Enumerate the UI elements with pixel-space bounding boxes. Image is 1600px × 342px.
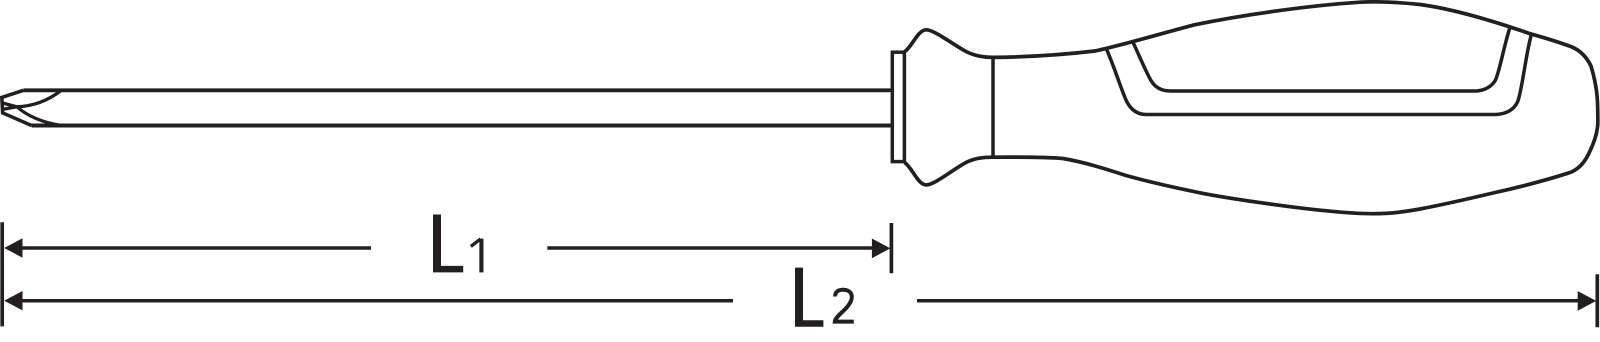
label subscript 1 of L1 flag	[471, 239, 481, 247]
label L of L2	[795, 268, 823, 327]
L1 right arrowhead	[872, 239, 891, 259]
phillips tip outline	[2, 90, 32, 125]
dimension left shared tick	[0, 222, 4, 326]
L2 right arrowhead	[1578, 291, 1597, 311]
dimension line L1 left segment	[20, 246, 371, 250]
dimension L1 right tick	[890, 223, 894, 273]
ferrule collar rectangle	[892, 52, 904, 161]
L2 left arrowhead	[4, 291, 22, 310]
label subscript 1 of L1 stem	[479, 239, 483, 273]
dimension line L2 right segment	[917, 299, 1580, 303]
dimension line L2 left segment	[20, 299, 733, 303]
phillips tip upper flute	[2, 91, 61, 107]
L1 left arrowhead	[4, 238, 22, 257]
label subscript 2 of L2	[835, 290, 854, 322]
handle neck separation line	[991, 57, 995, 157]
phillips tip lower flute	[3, 107, 62, 126]
dimension line L1 right segment	[547, 246, 873, 250]
screwdriver blade bottom line	[32, 124, 891, 128]
label L of L1	[433, 215, 463, 273]
handle grip inlay inner line (inner/upper)	[1133, 26, 1511, 91]
screwdriver blade top line	[24, 88, 891, 92]
handle outline (bell + body + end cap)	[905, 2, 1598, 214]
handle grip inlay inner line (outer/lower)	[1106, 34, 1531, 114]
dimension L2 right tick	[1595, 274, 1599, 327]
